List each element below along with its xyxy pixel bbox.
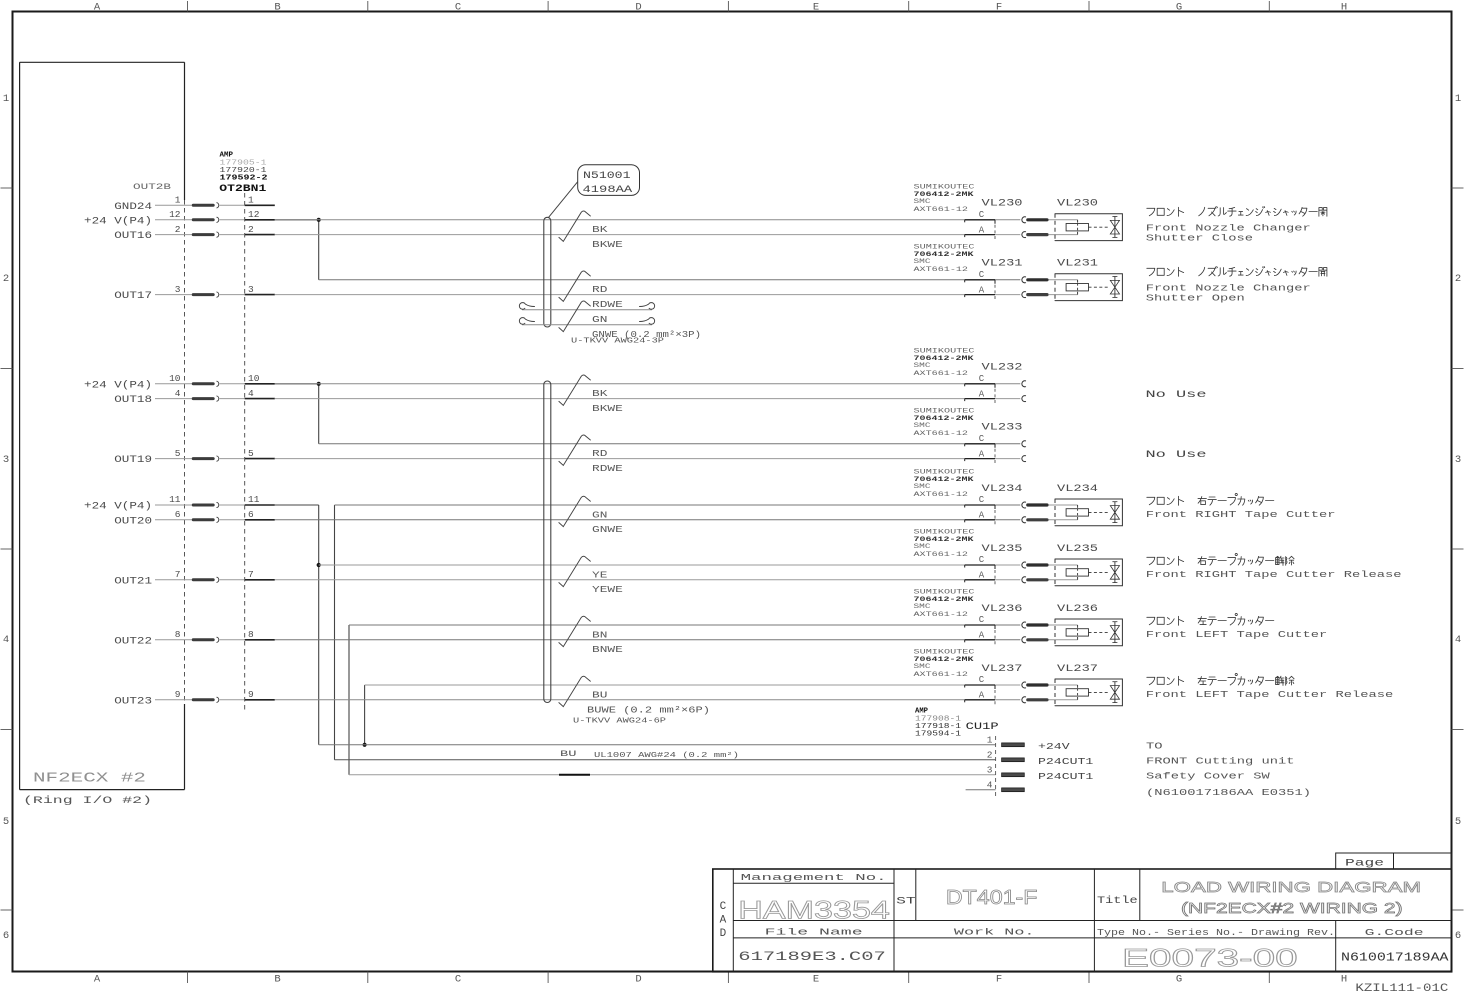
svg-text:3: 3 xyxy=(3,454,9,466)
svg-text:OUT21: OUT21 xyxy=(114,576,152,587)
svg-text:AXT661-12: AXT661-12 xyxy=(914,551,969,559)
valve connector VL232 (SMC AXT661-12) xyxy=(914,347,1026,403)
twisted pair BN/BNWE (cable 2) xyxy=(559,616,623,655)
svg-text:H: H xyxy=(1341,2,1347,14)
svg-text:VL230: VL230 xyxy=(1057,199,1098,210)
connector OT2B pin 2 (OUT16) xyxy=(114,224,275,242)
connector OT2B pin 9 (OUT23) xyxy=(114,689,275,707)
valve connector VL233 (SMC AXT661-12) xyxy=(914,407,1026,463)
svg-text:No Use: No Use xyxy=(1146,449,1207,461)
label function VL237 xyxy=(1146,673,1394,700)
wire VL234 C (P24CUT1) xyxy=(335,504,1021,506)
svg-text:5: 5 xyxy=(1455,816,1461,828)
svg-text:VL232: VL232 xyxy=(982,363,1023,374)
svg-text:YE: YE xyxy=(592,569,608,580)
twisted pair BK/BKWE (cable 2) xyxy=(559,375,623,414)
page number box xyxy=(1336,853,1452,869)
svg-text:A: A xyxy=(979,389,985,399)
svg-text:AXT661-12: AXT661-12 xyxy=(914,671,969,679)
twisted pair GN/GNWE (cable 2) xyxy=(559,496,623,535)
valve connector VL236 (SMC AXT661-12) xyxy=(914,589,1026,645)
svg-text:179592-2: 179592-2 xyxy=(220,175,269,183)
svg-text:5: 5 xyxy=(3,816,9,828)
svg-text:+24 V(P4): +24 V(P4) xyxy=(84,501,152,513)
connector OT2B pin 5 (OUT19) xyxy=(114,448,275,466)
svg-text:C: C xyxy=(979,675,985,685)
svg-text:6: 6 xyxy=(3,930,9,942)
svg-text:HAM3354: HAM3354 xyxy=(738,897,890,925)
svg-text:SMC: SMC xyxy=(914,603,931,611)
svg-text:1: 1 xyxy=(3,93,9,105)
svg-text:P24CUT1: P24CUT1 xyxy=(1038,756,1094,767)
svg-text:4: 4 xyxy=(987,779,993,790)
wire P24CUT1 riser CU1P pin3 to VL236 C xyxy=(348,625,350,775)
wire P24CUT1 from CU1P pin3 xyxy=(349,774,996,776)
svg-text:+24V: +24V xyxy=(1038,741,1070,752)
wire P24CUT1 riser CU1P pin2 to VL234 C xyxy=(334,505,336,760)
twisted pair YE/YEWE (cable 2) xyxy=(559,556,623,595)
svg-text:AXT661-12: AXT661-12 xyxy=(914,370,969,378)
svg-text:H: H xyxy=(1341,974,1347,986)
connector CU1P pin 2 (P24CUT1) xyxy=(987,749,1094,767)
wire +24V(P4) pin12 branch to VL231 C xyxy=(275,218,321,280)
wire VL233 C xyxy=(319,443,1021,445)
svg-text:11: 11 xyxy=(169,494,181,505)
connector OT2B pin 10 (+24 V(P4)) xyxy=(84,373,275,391)
svg-text:(N610017186AA E0351): (N610017186AA E0351) xyxy=(1146,787,1311,798)
svg-text:BNWE: BNWE xyxy=(592,644,623,655)
svg-text:AXT661-12: AXT661-12 xyxy=(914,206,969,214)
field File Name 617189E3.C07 xyxy=(738,927,886,965)
field CAD xyxy=(720,901,727,940)
crimp splices VL230 xyxy=(1026,218,1077,236)
connector CU1P housing (dashed) xyxy=(995,736,997,796)
svg-text:BN: BN xyxy=(592,629,607,640)
svg-text:C: C xyxy=(979,374,985,384)
svg-text:OUT17: OUT17 xyxy=(114,291,152,302)
svg-text:4198AA: 4198AA xyxy=(583,185,633,196)
svg-text:Shutter Close: Shutter Close xyxy=(1146,232,1254,243)
svg-text:6: 6 xyxy=(248,509,254,520)
connector OT2B pin 12 (+24 V(P4)) xyxy=(84,209,275,227)
twisted pair RD/RDWE (cable 2) xyxy=(559,435,623,474)
svg-text:B: B xyxy=(274,974,280,986)
crimp splices VL231 xyxy=(1026,278,1077,296)
svg-text:VL235: VL235 xyxy=(1057,544,1098,555)
svg-text:5: 5 xyxy=(175,448,181,459)
cable bundle W1 (U-TKVV AWG24-3P) xyxy=(544,217,551,327)
crimp splices VL235 xyxy=(1026,563,1077,581)
svg-text:179594-1: 179594-1 xyxy=(915,731,961,739)
svg-text:BK: BK xyxy=(592,388,608,399)
svg-text:11: 11 xyxy=(248,494,260,505)
svg-text:C: C xyxy=(455,2,461,14)
svg-text:+24 V(P4): +24 V(P4) xyxy=(84,379,152,391)
svg-text:CU1P: CU1P xyxy=(966,721,999,733)
svg-text:BK: BK xyxy=(592,224,608,235)
wire +24V to CU1P pin1 xyxy=(319,744,996,746)
connector OT2B pin 6 (OUT20) xyxy=(114,509,275,527)
svg-text:AXT661-12: AXT661-12 xyxy=(914,266,969,274)
svg-text:(NF2ECX#2 WIRING 2): (NF2ECX#2 WIRING 2) xyxy=(1181,901,1403,917)
svg-text:Front LEFT Tape Cutter: Front LEFT Tape Cutter xyxy=(1146,629,1328,640)
svg-text:A: A xyxy=(979,691,985,701)
valve connector VL231 (SMC AXT661-12) xyxy=(914,243,1026,299)
svg-text:4: 4 xyxy=(1455,634,1461,646)
svg-text:Front RIGHT Tape Cutter Releas: Front RIGHT Tape Cutter Release xyxy=(1146,569,1402,580)
svg-text:C: C xyxy=(979,555,985,565)
svg-text:VL235: VL235 xyxy=(982,544,1023,555)
svg-text:N610017189AA: N610017189AA xyxy=(1341,951,1449,965)
field Type No.- Series No.- Drawing Rev. E0073-00 xyxy=(1097,927,1335,973)
field Title LOAD WIRING DIAGRAM (NF2ECX#2 WIRING 2) xyxy=(1097,879,1421,917)
solenoid valve VL236 xyxy=(1055,604,1122,646)
connector OT2B pin 4 (OUT18) xyxy=(114,388,275,406)
svg-text:2: 2 xyxy=(3,273,9,285)
svg-text:G.Code: G.Code xyxy=(1365,927,1424,938)
svg-text:AMP: AMP xyxy=(915,708,929,716)
svg-text:SMC: SMC xyxy=(914,483,931,491)
wire +24V(P4)/VL232 C xyxy=(275,383,1021,385)
valve connector VL230 (SMC AXT661-12) xyxy=(914,183,1026,239)
wire OUT16 to VL230 A xyxy=(275,234,1021,236)
svg-text:Management No.: Management No. xyxy=(741,872,887,883)
svg-text:VL237: VL237 xyxy=(1057,664,1098,675)
I/O unit box NF2ECX #2 (Ring I/O #2) xyxy=(20,62,185,807)
svg-text:C: C xyxy=(979,210,985,220)
wire +24V riser to VL237 C xyxy=(363,685,367,747)
label function VL236 xyxy=(1146,613,1328,640)
svg-text:2: 2 xyxy=(248,224,254,235)
svg-text:SMC: SMC xyxy=(914,258,931,266)
svg-text:1: 1 xyxy=(987,734,993,745)
svg-text:GN: GN xyxy=(592,314,607,325)
svg-text:B: B xyxy=(274,2,280,14)
svg-text:File Name: File Name xyxy=(765,927,864,938)
svg-text:2: 2 xyxy=(1455,273,1461,285)
svg-text:Title: Title xyxy=(1097,895,1138,907)
svg-text:VL236: VL236 xyxy=(1057,604,1098,615)
svg-text:177920-1: 177920-1 xyxy=(220,167,268,175)
svg-text:A: A xyxy=(979,449,985,459)
svg-text:OUT18: OUT18 xyxy=(114,395,152,406)
label function VL235 xyxy=(1146,553,1402,580)
svg-text:OUT23: OUT23 xyxy=(114,696,152,707)
label TO FRONT Cutting unit Safety Cover SW xyxy=(1146,740,1311,798)
svg-text:AXT661-12: AXT661-12 xyxy=(914,491,969,499)
connector CU1P pin 4 xyxy=(987,779,1025,791)
label BU UL1007 AWG#24 on +24V wire xyxy=(560,749,739,760)
svg-text:BUWE (0.2 mm²×6P): BUWE (0.2 mm²×6P) xyxy=(587,704,710,715)
svg-text:C: C xyxy=(979,270,985,280)
svg-text:RD: RD xyxy=(592,284,608,295)
wire OUT19 to VL233 A xyxy=(275,458,1021,460)
connector OT2B pin 3 (OUT17) xyxy=(114,284,275,302)
svg-text:12: 12 xyxy=(248,209,260,220)
solenoid valve VL237 xyxy=(1055,664,1122,706)
svg-text:OT2BN1: OT2BN1 xyxy=(219,184,266,195)
svg-text:VL237: VL237 xyxy=(982,664,1023,675)
svg-text:SMC: SMC xyxy=(914,422,931,430)
svg-text:7: 7 xyxy=(248,569,254,580)
svg-text:C: C xyxy=(979,495,985,505)
svg-text:OUT16: OUT16 xyxy=(114,231,152,242)
svg-text:3: 3 xyxy=(1455,454,1461,466)
svg-text:VL234: VL234 xyxy=(982,484,1023,495)
svg-text:BU: BU xyxy=(560,749,577,759)
wire +24V(P4) pin10 branch to VL233 C xyxy=(275,382,321,444)
svg-text:OUT2B: OUT2B xyxy=(133,182,171,192)
wire VL231 C xyxy=(319,279,1021,281)
svg-text:ST: ST xyxy=(896,895,916,907)
wire P24CUT1 from CU1P pin2 xyxy=(335,759,996,761)
field Management No. HAM3354 xyxy=(738,872,890,925)
svg-text:OUT20: OUT20 xyxy=(114,516,152,527)
svg-text:E: E xyxy=(813,2,819,14)
svg-text:P24CUT1: P24CUT1 xyxy=(1038,771,1094,782)
svg-text:OUT22: OUT22 xyxy=(114,636,152,647)
svg-text:N51001: N51001 xyxy=(583,171,631,182)
title block xyxy=(713,869,1452,972)
svg-text:A: A xyxy=(94,2,101,14)
twisted pair RD/RDWE (cable 1) xyxy=(559,271,623,310)
svg-text:E: E xyxy=(813,974,819,986)
svg-text:2: 2 xyxy=(987,749,993,760)
crimp splices VL234 xyxy=(1026,503,1077,521)
field G.Code N610017189AA xyxy=(1341,927,1449,965)
valve connector VL234 (SMC AXT661-12) xyxy=(914,469,1026,525)
svg-text:RD: RD xyxy=(592,448,608,459)
svg-text:4: 4 xyxy=(248,388,254,399)
svg-text:AXT661-12: AXT661-12 xyxy=(914,430,969,438)
svg-text:3: 3 xyxy=(987,764,993,775)
svg-text:BKWE: BKWE xyxy=(592,239,623,250)
svg-text:VL234: VL234 xyxy=(1057,484,1098,495)
twisted pair BK/BKWE (cable 1) xyxy=(559,211,623,250)
svg-text:SMC: SMC xyxy=(914,543,931,551)
svg-text:3: 3 xyxy=(248,284,254,295)
svg-text:SMC: SMC xyxy=(914,663,931,671)
svg-text:8: 8 xyxy=(248,629,254,640)
wire +24V(P4) pin11 down-feed to VL235 C and CU1P pin1 xyxy=(275,505,321,745)
svg-text:A: A xyxy=(979,511,985,521)
connector CU1P part numbers (AMP) xyxy=(915,708,999,739)
svg-text:1: 1 xyxy=(248,195,254,206)
wire OUT20 to VL234 A xyxy=(275,519,1021,521)
svg-text:Type No.- Series No.- Drawing: Type No.- Series No.- Drawing Rev. xyxy=(1097,927,1335,938)
svg-text:D: D xyxy=(720,928,727,940)
svg-text:SMC: SMC xyxy=(914,198,931,206)
svg-text:1: 1 xyxy=(175,195,181,206)
svg-text:YEWE: YEWE xyxy=(592,584,623,595)
cable bundle W2 (U-TKVV AWG24-6P) xyxy=(544,381,551,703)
svg-text:10: 10 xyxy=(169,373,181,384)
svg-text:LOAD WIRING DIAGRAM: LOAD WIRING DIAGRAM xyxy=(1161,879,1421,896)
svg-text:2: 2 xyxy=(175,224,181,235)
svg-text:7: 7 xyxy=(175,569,181,580)
field ST DT401-F xyxy=(896,887,1037,909)
svg-text:U-TKVV AWG24-3P: U-TKVV AWG24-3P xyxy=(571,338,664,346)
svg-text:1: 1 xyxy=(1455,93,1461,105)
svg-text:D: D xyxy=(635,974,641,986)
svg-text:A: A xyxy=(979,225,985,235)
valve connector VL237 (SMC AXT661-12) xyxy=(914,649,1026,705)
svg-text:G: G xyxy=(1176,974,1182,986)
svg-text:F: F xyxy=(996,974,1002,986)
solenoid valve VL231 xyxy=(1055,259,1122,301)
svg-text:Safety Cover SW: Safety Cover SW xyxy=(1146,770,1270,781)
svg-text:VL233: VL233 xyxy=(982,423,1023,434)
svg-text:VL231: VL231 xyxy=(982,259,1023,270)
svg-text:12: 12 xyxy=(169,209,181,220)
wire VL235 C (+24V) xyxy=(319,564,1021,566)
svg-text:RDWE: RDWE xyxy=(592,463,623,474)
svg-text:Page: Page xyxy=(1345,857,1384,869)
svg-text:6: 6 xyxy=(175,509,181,520)
svg-text:9: 9 xyxy=(248,689,254,700)
solenoid valve VL234 xyxy=(1055,484,1122,526)
svg-text:A: A xyxy=(979,571,985,581)
wire VL237 C (+24V) xyxy=(365,684,1021,686)
label function VL230 xyxy=(1146,206,1327,243)
svg-text:A: A xyxy=(720,915,727,927)
connector OT2B housing (dashed pin column) xyxy=(185,193,245,710)
unused pair GN/GNWE with coiled ends xyxy=(519,301,701,345)
svg-text:Front RIGHT Tape Cutter: Front RIGHT Tape Cutter xyxy=(1146,509,1336,520)
svg-text:9: 9 xyxy=(175,689,181,700)
svg-text:GND24: GND24 xyxy=(114,202,152,213)
connector CU1P pin 3 (P24CUT1) xyxy=(987,764,1094,782)
svg-text:A: A xyxy=(979,631,985,641)
svg-text:KZIL111-01C: KZIL111-01C xyxy=(1355,983,1448,992)
svg-text:6: 6 xyxy=(1455,930,1461,942)
svg-text:D: D xyxy=(635,2,641,14)
svg-text:No Use: No Use xyxy=(1146,389,1207,401)
wire +24V(P4)/VL230 C xyxy=(275,219,1021,221)
wire VL236 C (P24CUT1) xyxy=(349,624,1020,626)
svg-text:(Ring I/O #2): (Ring I/O #2) xyxy=(23,795,152,807)
svg-text:Shutter Open: Shutter Open xyxy=(1146,292,1245,303)
svg-text:AMP: AMP xyxy=(220,152,234,160)
label function VL231 xyxy=(1146,266,1327,303)
wire OUT18 to VL232 A xyxy=(275,398,1021,400)
crimp splices VL237 xyxy=(1026,683,1077,701)
svg-text:VL236: VL236 xyxy=(982,604,1023,615)
svg-text:BU: BU xyxy=(592,689,608,700)
connector OT2B pin 7 (OUT21) xyxy=(114,569,275,587)
svg-text:GN: GN xyxy=(592,509,607,520)
svg-text:A: A xyxy=(979,285,985,295)
svg-text:3: 3 xyxy=(175,284,181,295)
svg-text:4: 4 xyxy=(175,388,181,399)
label function VL234 xyxy=(1146,493,1336,520)
svg-text:SMC: SMC xyxy=(914,362,931,370)
svg-text:UL1007 AWG#24 (0.2 mm²): UL1007 AWG#24 (0.2 mm²) xyxy=(594,751,739,760)
solenoid valve VL235 xyxy=(1055,544,1122,586)
svg-text:C: C xyxy=(455,974,461,986)
svg-text:Front LEFT Tape Cutter Release: Front LEFT Tape Cutter Release xyxy=(1146,689,1394,700)
wire OUT17 to VL231 A xyxy=(275,294,1021,296)
wire OUT22 to VL236 A xyxy=(275,639,1021,641)
svg-text:C: C xyxy=(979,434,985,444)
svg-text:VL231: VL231 xyxy=(1057,259,1098,270)
svg-text:A: A xyxy=(94,974,101,986)
solenoid valve VL230 xyxy=(1055,199,1122,241)
connector OT2B pin 11 (+24 V(P4)) xyxy=(84,494,275,512)
svg-text:8: 8 xyxy=(175,629,181,640)
svg-text:BKWE: BKWE xyxy=(592,403,623,414)
svg-text:4: 4 xyxy=(3,634,9,646)
svg-text:5: 5 xyxy=(248,448,254,459)
svg-text:Work No.: Work No. xyxy=(954,927,1035,938)
svg-text:617189E3.C07: 617189E3.C07 xyxy=(738,949,886,964)
wire OUT21 to VL235 A xyxy=(275,579,1021,581)
connector OT2BN1 part numbers (AMP) xyxy=(219,152,268,195)
connector CU1P pin 1 (+24V) xyxy=(987,734,1070,752)
valve connector VL235 (SMC AXT661-12) xyxy=(914,529,1026,585)
svg-text:+24 V(P4): +24 V(P4) xyxy=(84,215,152,227)
wire OUT23 to VL237 A xyxy=(275,699,1021,701)
svg-text:RDWE: RDWE xyxy=(592,299,623,310)
svg-text:NF2ECX #2: NF2ECX #2 xyxy=(33,772,146,787)
svg-text:U-TKVV AWG24-6P: U-TKVV AWG24-6P xyxy=(573,718,666,726)
crimp splices VL236 xyxy=(1026,623,1077,641)
wire CU1P pin4 stub xyxy=(966,789,996,791)
svg-text:G: G xyxy=(1176,2,1182,14)
svg-text:C: C xyxy=(979,615,985,625)
svg-text:C: C xyxy=(720,901,727,913)
svg-text:F: F xyxy=(996,2,1002,14)
twisted pair BU/BUWE (cable 2) xyxy=(559,676,710,725)
svg-text:OUT19: OUT19 xyxy=(114,455,152,466)
svg-text:TO: TO xyxy=(1146,740,1163,751)
cable tag N51001 4198AA xyxy=(548,165,639,218)
svg-text:AXT661-12: AXT661-12 xyxy=(914,611,969,619)
connector OT2B pin 1 (GND24) xyxy=(114,195,275,213)
svg-text:FRONT Cutting unit: FRONT Cutting unit xyxy=(1146,755,1295,766)
connector OT2B pin 8 (OUT22) xyxy=(114,629,275,647)
svg-text:GNWE: GNWE xyxy=(592,524,623,535)
svg-text:VL230: VL230 xyxy=(982,199,1023,210)
svg-text:E0073-00: E0073-00 xyxy=(1122,945,1298,973)
svg-text:DT401-F: DT401-F xyxy=(946,887,1038,909)
svg-text:10: 10 xyxy=(248,373,260,384)
